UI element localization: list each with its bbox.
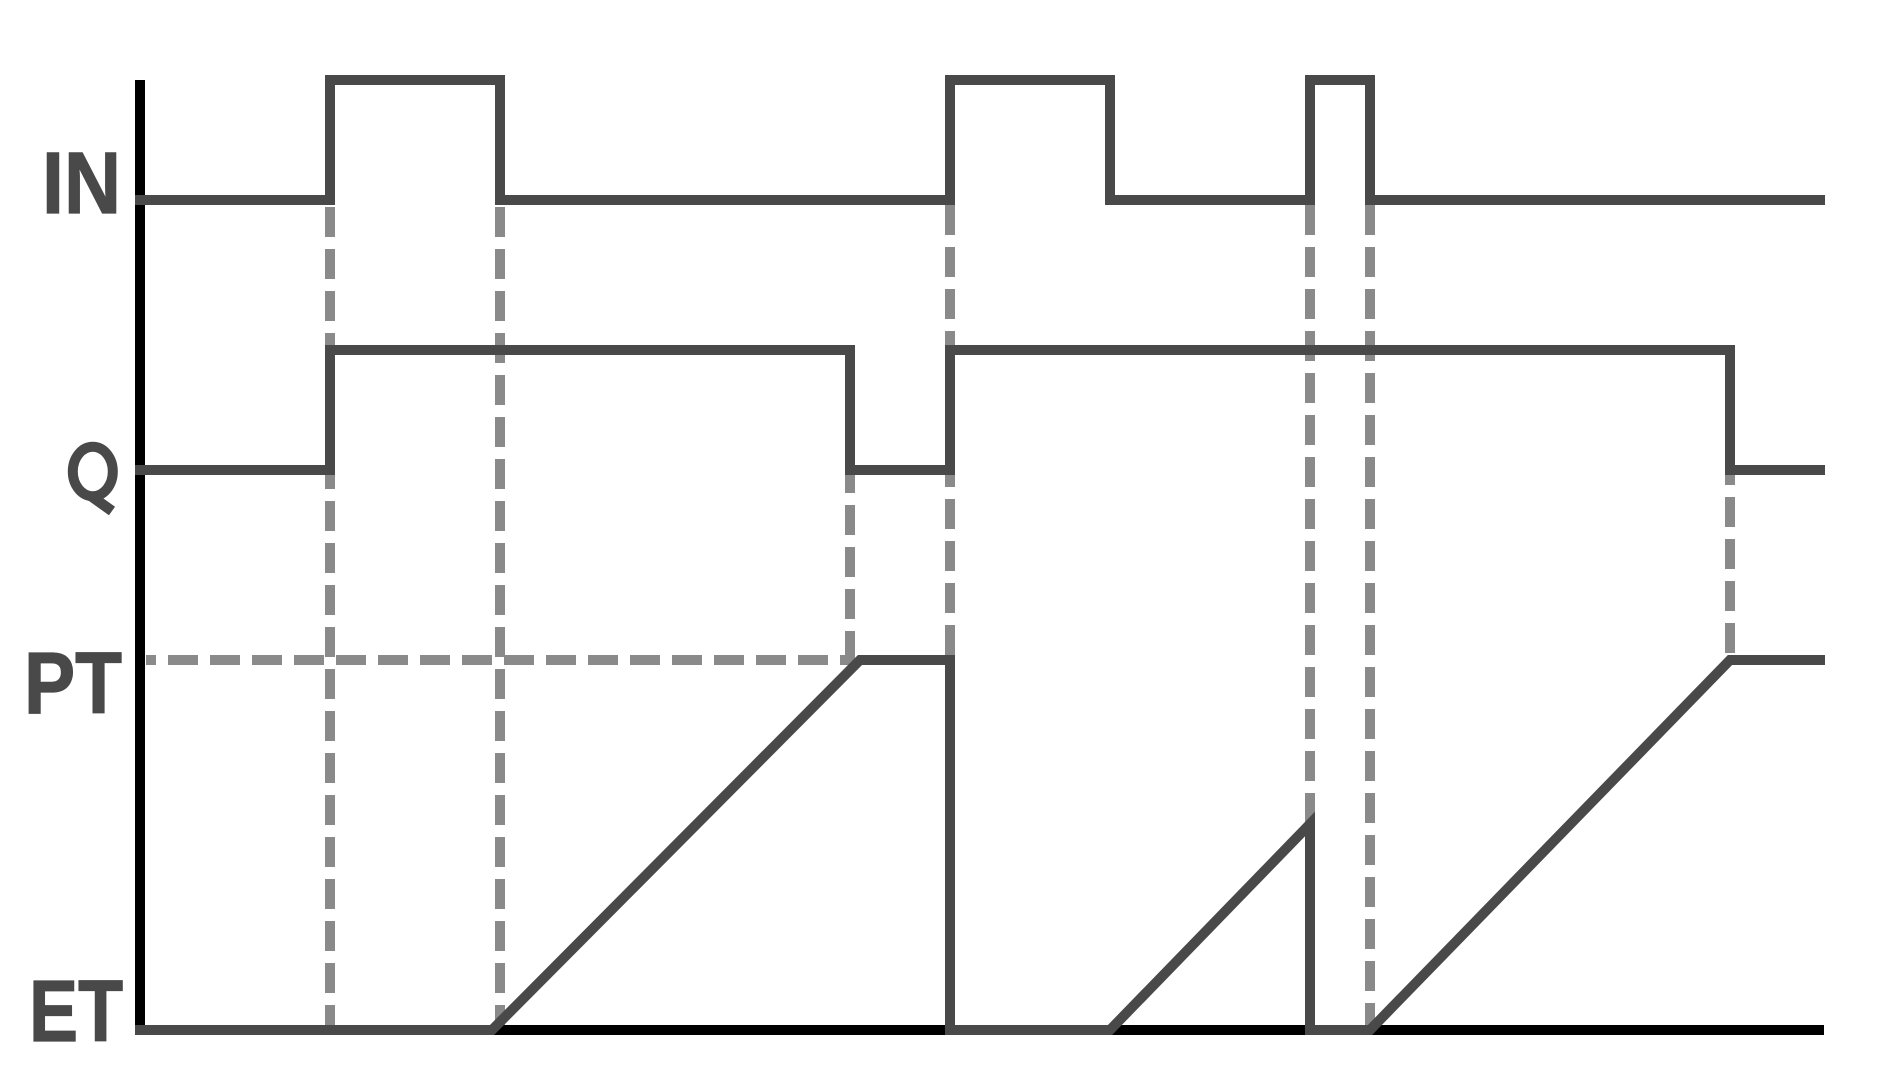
svg-text:IN: IN xyxy=(42,135,121,232)
svg-text:PT: PT xyxy=(24,635,122,732)
Q waveform xyxy=(135,350,1825,470)
dashed guide at IN rise 1 (x=330) xyxy=(325,207,335,1025)
IN waveform xyxy=(135,80,1825,200)
dashed guide at Q fall 1 (x=850) xyxy=(845,475,855,664)
ET waveform xyxy=(135,660,1825,1030)
label Q xyxy=(73,447,113,511)
dashed guide at Q fall 2 (x=1730) xyxy=(1725,475,1735,664)
dashed guide at IN fall 1 (x=500) xyxy=(495,207,505,1025)
svg-text:ET: ET xyxy=(29,963,123,1060)
dashed guide at IN rise 3 (x=1310) xyxy=(1305,205,1315,1025)
axis (vertical + time axis) xyxy=(140,80,1824,1030)
PT level dashed line xyxy=(146,655,853,665)
dashed guide at IN rise 2 (x=950) xyxy=(945,205,955,660)
dashed guide at IN fall 3 (x=1370) xyxy=(1365,205,1375,1025)
